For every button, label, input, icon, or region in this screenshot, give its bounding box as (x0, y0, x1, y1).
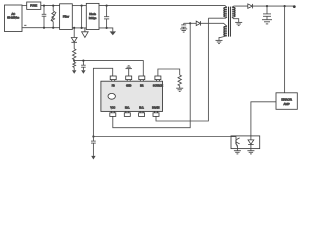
output capacitor C5 (266, 6, 268, 14)
svg-text:GND: GND (126, 86, 131, 88)
node output cap tap (266, 5, 268, 7)
svg-text:FB: FB (112, 86, 115, 88)
node top of X-capacitor (43, 5, 45, 7)
svg-text:SOURCE: SOURCE (153, 86, 163, 88)
earth ground under AC line (84, 28, 86, 32)
capacitor C2 on divider (82, 61, 84, 66)
svg-text:85-265Vac: 85-265Vac (7, 17, 20, 20)
wire aux bottom to ground (219, 36, 227, 41)
wire AC box to filter box (bottom AC line N) (22, 27, 60, 29)
IC bottom pad pin DRAIN (153, 111, 159, 116)
node bottom of varistor (52, 27, 54, 29)
wire filter to bridge bottom (72, 27, 86, 29)
IC pin1 marker ellipse (108, 93, 115, 99)
svg-text:Bridge: Bridge (89, 16, 97, 20)
wire node to diode D2 (190, 22, 196, 24)
wire divider node to BR pin (74, 61, 143, 76)
optocoupler phototransistor (231, 137, 240, 149)
svg-text:BR: BR (140, 86, 144, 88)
IC top pad pin GND (126, 76, 132, 81)
snubber capacitor C4 with chassis ground (183, 23, 185, 25)
chassis ground under opto emitter (234, 151, 241, 154)
ground arrow under C6 (91, 156, 95, 160)
wire error amp to optocoupler LED (251, 102, 276, 136)
wire secondary top to output diode (232, 6, 248, 7)
chassis ground under C4 (180, 29, 187, 32)
IC bottom pad pin VCC (110, 111, 116, 116)
optocoupler U2 box (231, 136, 260, 149)
X-capacitor C1 across AC lines (43, 6, 45, 15)
wire primary bottom to drain vertical (208, 17, 227, 18)
node feedback tap (284, 5, 286, 7)
chassis ground under secondary (235, 22, 242, 25)
svg-text:N.C.: N.C. (125, 108, 130, 110)
wire secondary bottom to ground (232, 17, 239, 23)
resistor R2 (vertical zigzag) (73, 62, 76, 68)
output diode D3 (pointing right) (248, 4, 253, 8)
node cap tap on divider line (82, 60, 84, 62)
ground arrow below C2 (81, 70, 85, 74)
wire D2 to auxiliary winding (201, 23, 228, 26)
svg-text:VCC: VCC (110, 108, 115, 110)
node link top (81, 5, 83, 7)
minus label on AC neutral (24, 24, 26, 26)
transformer T1 secondary winding (232, 7, 235, 17)
IC bottom pad pin NC2 (139, 111, 145, 116)
wire bridge negative to ground arrow (99, 28, 113, 32)
wire SOURCE pin to sense resistor (158, 69, 180, 76)
diode D1 (pointing down) (71, 38, 77, 43)
svg-text:N.C.: N.C. (139, 108, 144, 110)
transformer T1 primary winding (224, 7, 227, 17)
svg-text:AC: AC (11, 12, 15, 16)
sense resistor R3 (vertical zigzag) (178, 75, 181, 86)
wire drain vertical (156, 18, 208, 121)
wire feedback tap to error amp (284, 6, 286, 93)
ground arrow primary return (110, 31, 116, 35)
IC top pad pin FB (110, 76, 116, 81)
diode D2 (pointing right) (196, 21, 200, 26)
fuse F1 (27, 2, 41, 9)
wire filter to bridge top (72, 5, 86, 7)
IC top pad pin SOURCE (155, 76, 161, 81)
svg-text:ERROR: ERROR (281, 97, 291, 101)
chassis ground under R3 (176, 88, 183, 91)
output rail (253, 5, 294, 7)
node link bottom (81, 27, 83, 29)
EMI filter block (60, 4, 73, 30)
svg-text:FUSE: FUSE (30, 4, 37, 8)
optocoupler LED (pointing down) (248, 136, 254, 149)
wire vcc vertical (113, 23, 190, 127)
wire diode to resistor R1 (73, 42, 75, 49)
wire down to diode D1 (73, 28, 75, 38)
ground arrow below R2 (72, 70, 76, 74)
wire opto LED cathode to ground (250, 149, 252, 151)
node bottom of X-capacitor (43, 27, 45, 29)
node FB rail (92, 135, 94, 137)
wire R2 to ground arrow (73, 68, 75, 71)
DC bus rail to transformer primary (99, 6, 227, 8)
wire FB pin loop (93, 68, 112, 136)
svg-text:DRAIN: DRAIN (152, 107, 160, 110)
wire opto transistor emitter to ground (236, 149, 238, 151)
transformer T1 auxiliary winding (224, 26, 227, 36)
feedback rail to opto (93, 136, 231, 138)
diode bridge block (86, 3, 99, 29)
transformer core (228, 7, 230, 37)
node bulk cap bottom (106, 27, 108, 29)
node divider (73, 60, 75, 62)
wire C4 to node (184, 22, 191, 24)
varistor RV1 across AC lines (52, 6, 54, 11)
wire AC box to fuse (line L) (22, 5, 27, 7)
svg-text:Filter: Filter (63, 14, 69, 18)
wire fuse to filter box (top AC line) (41, 5, 60, 7)
svg-text:AMP: AMP (283, 102, 289, 106)
FB filter capacitor C6 (92, 137, 94, 142)
chassis ground under C5 (262, 20, 272, 24)
wire R3 to chassis ground (179, 86, 181, 88)
node bulk cap top (106, 5, 108, 7)
chassis ground under aux winding (216, 40, 223, 43)
output terminal dot (293, 5, 296, 8)
AC input source box (5, 5, 23, 32)
node top of varistor (52, 5, 54, 7)
IC top pad pin BR (139, 76, 145, 81)
wire vertical link between AC lines (81, 6, 83, 28)
IC bottom pad pin NC1 (124, 111, 130, 116)
svg-text:Diode: Diode (89, 12, 96, 16)
resistor R1 (vertical zigzag) (73, 49, 76, 60)
bulk capacitor C3 (106, 6, 108, 17)
node VCC tap (189, 22, 191, 24)
node startup chain tap (73, 27, 75, 29)
chassis ground above GND pin (inverted) (126, 66, 132, 76)
IC U1 body (101, 81, 163, 111)
error amplifier block (276, 93, 297, 110)
chassis ground under opto LED (247, 151, 254, 154)
